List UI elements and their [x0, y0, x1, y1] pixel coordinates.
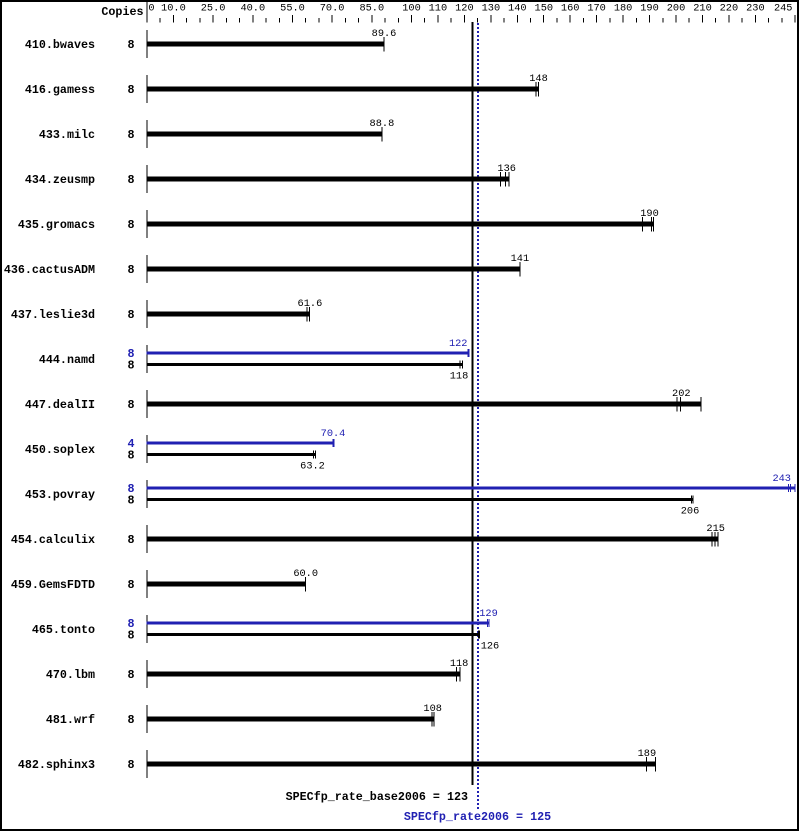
svg-text:434.zeusmp: 434.zeusmp [25, 173, 95, 187]
bar start line [146, 750, 147, 778]
bar start line [146, 435, 147, 463]
svg-text:202: 202 [672, 388, 691, 400]
bar 447.dealII base (value 202) [146, 402, 701, 407]
svg-text:210: 210 [693, 3, 712, 15]
row 450.soplex [25, 428, 346, 473]
svg-text:410.bwaves: 410.bwaves [25, 38, 95, 52]
svg-text:435.gromacs: 435.gromacs [18, 218, 95, 232]
run whisker ticks [456, 667, 461, 682]
svg-text:141: 141 [511, 253, 530, 265]
svg-text:122: 122 [449, 338, 468, 350]
bar start line [146, 255, 147, 283]
run whisker ticks (base) [478, 631, 480, 639]
bar 436.cactusADM base (value 141) [146, 267, 520, 272]
svg-text:8: 8 [127, 668, 134, 682]
bar start line [146, 345, 147, 373]
svg-text:220: 220 [720, 3, 739, 15]
svg-text:0: 0 [148, 3, 154, 15]
svg-text:437.leslie3d: 437.leslie3d [11, 308, 95, 322]
run whisker ticks [642, 217, 654, 232]
svg-text:447.dealII: 447.dealII [25, 398, 95, 412]
svg-text:190: 190 [640, 3, 659, 15]
svg-text:63.2: 63.2 [300, 461, 325, 473]
bar 450.soplex base (value 63.2) [146, 453, 315, 456]
svg-text:SPECfp_rate2006 = 125: SPECfp_rate2006 = 125 [404, 810, 551, 824]
svg-text:433.milc: 433.milc [39, 128, 95, 142]
bar 450.soplex peak (value 70.4) [146, 442, 333, 445]
row 470.lbm [46, 658, 468, 688]
svg-text:136: 136 [497, 163, 516, 175]
row 459.GemsFDTD [11, 568, 318, 598]
svg-text:8: 8 [127, 398, 134, 412]
run whisker ticks (peak) [333, 439, 335, 447]
row 453.povray [25, 473, 796, 518]
run whisker ticks [500, 172, 510, 187]
row 437.leslie3d [11, 298, 322, 328]
row 434.zeusmp [25, 163, 516, 193]
svg-text:60.0: 60.0 [293, 568, 318, 580]
svg-text:126: 126 [481, 641, 500, 653]
svg-text:470.lbm: 470.lbm [46, 668, 95, 682]
svg-text:8: 8 [127, 83, 134, 97]
run whisker ticks [646, 757, 656, 772]
svg-text:8: 8 [127, 128, 134, 142]
run whisker ticks [384, 37, 385, 52]
svg-text:70.0: 70.0 [320, 3, 345, 15]
bar 453.povray peak (value 243) [146, 487, 795, 490]
bar start line [146, 615, 147, 643]
run whisker ticks (peak) [788, 484, 796, 492]
svg-text:130: 130 [482, 3, 501, 15]
bar 482.sphinx3 base (value 189) [146, 762, 655, 767]
bar 481.wrf base (value 108) [146, 717, 434, 722]
bar 435.gromacs base (value 190) [146, 222, 653, 227]
x-axis tick marks (minor every 5, major at labeled values) [160, 15, 796, 22]
bar 434.zeusmp base (value 136) [146, 177, 509, 182]
svg-text:243: 243 [772, 473, 791, 485]
svg-text:8: 8 [127, 308, 134, 322]
svg-text:40.0: 40.0 [240, 3, 265, 15]
svg-text:100: 100 [402, 3, 421, 15]
bar 416.gamess base (value 148) [146, 87, 538, 92]
run whisker ticks [305, 577, 306, 592]
svg-text:436.cactusADM: 436.cactusADM [4, 263, 95, 277]
row 433.milc [39, 118, 394, 148]
svg-text:120: 120 [455, 3, 474, 15]
svg-text:85.0: 85.0 [359, 3, 384, 15]
bar start line [146, 165, 147, 193]
svg-text:450.soplex: 450.soplex [25, 443, 95, 457]
header separator line [146, 2, 147, 23]
row 465.tonto [32, 608, 499, 653]
bar start line [146, 30, 147, 58]
svg-text:8: 8 [127, 578, 134, 592]
row 482.sphinx3 [18, 748, 656, 778]
row 416.gamess [25, 73, 548, 103]
svg-text:Copies: Copies [101, 5, 143, 19]
svg-text:108: 108 [423, 703, 442, 715]
svg-text:8: 8 [127, 449, 134, 463]
bar 437.leslie3d base (value 61.6) [146, 312, 309, 317]
svg-text:88.8: 88.8 [370, 118, 395, 130]
row 481.wrf [46, 703, 442, 733]
svg-text:8: 8 [127, 38, 134, 52]
svg-text:8: 8 [127, 173, 134, 187]
svg-text:8: 8 [127, 713, 134, 727]
bar 444.namd peak (value 122) [146, 352, 469, 355]
svg-text:8: 8 [127, 359, 134, 373]
bar 470.lbm base (value 118) [146, 672, 460, 677]
bar start line [146, 570, 147, 598]
svg-text:89.6: 89.6 [372, 28, 397, 40]
svg-text:118: 118 [450, 371, 469, 383]
run whisker ticks (base) [460, 361, 464, 369]
svg-text:416.gamess: 416.gamess [25, 83, 95, 97]
svg-text:55.0: 55.0 [280, 3, 305, 15]
svg-text:SPECfp_rate_base2006 = 123: SPECfp_rate_base2006 = 123 [286, 790, 468, 804]
row 436.cactusADM [4, 253, 529, 283]
svg-text:8: 8 [127, 533, 134, 547]
reference line SPECfp_rate_base2006 = 123 (solid black) [472, 22, 474, 785]
svg-text:206: 206 [681, 506, 700, 518]
svg-text:190: 190 [640, 208, 659, 220]
svg-text:150: 150 [535, 3, 554, 15]
svg-text:140: 140 [508, 3, 527, 15]
bar 433.milc base (value 88.8) [146, 132, 382, 137]
svg-text:170: 170 [587, 3, 606, 15]
svg-text:70.4: 70.4 [321, 428, 346, 440]
bar start line [146, 525, 147, 553]
svg-text:10.0: 10.0 [161, 3, 186, 15]
svg-text:482.sphinx3: 482.sphinx3 [18, 758, 95, 772]
bar start line [146, 210, 147, 238]
svg-text:200: 200 [667, 3, 686, 15]
svg-text:110: 110 [429, 3, 448, 15]
svg-text:160: 160 [561, 3, 580, 15]
svg-text:454.calculix: 454.calculix [11, 533, 95, 547]
row 454.calculix [11, 523, 725, 553]
run whisker ticks (base) [691, 496, 694, 504]
row 444.namd [39, 338, 470, 383]
row 435.gromacs [18, 208, 659, 238]
run whisker ticks (peak) [487, 619, 490, 627]
svg-text:453.povray: 453.povray [25, 488, 95, 502]
svg-text:129: 129 [479, 608, 498, 620]
bar start line [146, 300, 147, 328]
svg-text:118: 118 [450, 658, 469, 670]
bar 444.namd base (value 118) [146, 363, 463, 366]
bar 465.tonto base (value 126) [146, 633, 480, 636]
bar start line [146, 480, 147, 508]
bar start line [146, 390, 147, 418]
bar 453.povray base (value 206) [146, 498, 693, 501]
svg-text:8: 8 [127, 263, 134, 277]
svg-text:180: 180 [614, 3, 633, 15]
svg-text:8: 8 [127, 494, 134, 508]
run whisker ticks [432, 712, 435, 727]
row 447.dealII [25, 388, 702, 418]
row 410.bwaves [25, 28, 397, 58]
run whisker ticks (base) [313, 451, 316, 459]
run whisker ticks [677, 397, 702, 412]
run whisker ticks [382, 127, 383, 142]
run whisker ticks [520, 262, 521, 277]
run whisker ticks [536, 82, 540, 97]
bar 410.bwaves base (value 89.6) [146, 42, 384, 47]
bar start line [146, 75, 147, 103]
run whisker ticks [307, 307, 311, 322]
svg-text:8: 8 [127, 218, 134, 232]
svg-text:230: 230 [746, 3, 765, 15]
run whisker ticks [712, 532, 719, 547]
svg-text:245: 245 [774, 3, 793, 15]
bar 459.GemsFDTD base (value 60.0) [146, 582, 305, 587]
svg-text:459.GemsFDTD: 459.GemsFDTD [11, 578, 95, 592]
bar 465.tonto peak (value 129) [146, 622, 489, 625]
svg-text:189: 189 [638, 748, 657, 760]
svg-text:481.wrf: 481.wrf [46, 713, 95, 727]
svg-text:444.namd: 444.namd [39, 353, 95, 367]
svg-text:8: 8 [127, 758, 134, 772]
bar 454.calculix base (value 215) [146, 537, 718, 542]
svg-text:8: 8 [127, 629, 134, 643]
run whisker ticks (peak) [468, 349, 470, 357]
bar start line [146, 120, 147, 148]
svg-text:465.tonto: 465.tonto [32, 623, 95, 637]
svg-text:148: 148 [529, 73, 548, 85]
bar start line [146, 705, 147, 733]
bar start line [146, 660, 147, 688]
reference line SPECfp_rate2006 = 125 (dotted blue) [477, 23, 479, 809]
svg-text:25.0: 25.0 [201, 3, 226, 15]
svg-text:215: 215 [706, 523, 725, 535]
svg-text:61.6: 61.6 [298, 298, 323, 310]
